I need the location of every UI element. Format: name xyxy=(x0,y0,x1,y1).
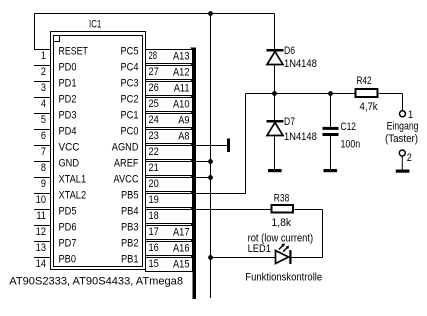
svg-text:A10: A10 xyxy=(173,98,190,110)
diode D7 (1N4148, cathode up) xyxy=(267,120,284,136)
label C12 xyxy=(341,121,357,133)
IC1 pin 16 (PB2) label frame xyxy=(146,240,197,256)
label rot (low current) xyxy=(248,233,314,245)
svg-text:20: 20 xyxy=(149,178,159,190)
svg-text:PD1: PD1 xyxy=(59,77,77,89)
pin number 27 xyxy=(149,66,159,78)
label AT90S2333, AT90S4433, ATmega8 xyxy=(9,275,183,287)
ground (below terminal 2) xyxy=(396,170,410,173)
svg-text:AGND: AGND xyxy=(112,141,139,153)
pin name PB5 xyxy=(121,189,139,201)
svg-text:R38: R38 xyxy=(274,193,290,205)
wire: pin 19 PB5 horizontal xyxy=(196,193,246,195)
pin name XTAL2 xyxy=(59,189,87,201)
svg-text:R42: R42 xyxy=(357,75,372,87)
pin name PB0 xyxy=(59,253,77,265)
svg-text:2: 2 xyxy=(41,66,46,78)
terminal pad 2 (Eingang return) xyxy=(399,150,405,156)
wire: R38 right lead xyxy=(295,209,323,211)
svg-text:PD0: PD0 xyxy=(59,61,77,73)
IC1 pin 18 (PB4) label frame xyxy=(146,208,197,224)
svg-text:15: 15 xyxy=(149,258,159,270)
pin name PB1 xyxy=(121,253,139,265)
wire: C12 bottom lead to ground xyxy=(330,136,332,169)
pin number 3 xyxy=(41,82,46,94)
ground (AGND tap bar, rotated) xyxy=(227,139,230,153)
LED LED1 (rot, low current) xyxy=(276,243,292,264)
svg-text:14: 14 xyxy=(36,258,46,270)
pin number 20 xyxy=(149,178,159,190)
pin number 6 xyxy=(41,130,46,142)
svg-text:D6: D6 xyxy=(284,45,295,57)
svg-text:PC2: PC2 xyxy=(121,93,139,105)
IC1 pin 11 (PD5) stub wire xyxy=(34,209,51,211)
IC1 pin 17 (PB3) label frame xyxy=(146,224,197,240)
pin name RESET xyxy=(59,45,89,57)
svg-text:RESET: RESET xyxy=(59,45,89,57)
wire: input node horizontal (node to R42) xyxy=(246,93,355,95)
svg-text:A15: A15 xyxy=(173,258,190,270)
pin name PC5 xyxy=(121,45,139,57)
svg-text:PC5: PC5 xyxy=(121,45,139,57)
pin name PD1 xyxy=(59,77,77,89)
svg-text:PB1: PB1 xyxy=(121,253,139,265)
pin number 2 xyxy=(41,66,46,78)
svg-text:PB2: PB2 xyxy=(121,237,139,249)
IC1 pin 3 (PD1) stub wire xyxy=(34,81,51,83)
svg-text:24: 24 xyxy=(149,114,159,126)
wire: R42 to terminal 1 xyxy=(402,94,404,111)
svg-text:17: 17 xyxy=(149,226,159,238)
IC1 pin-1 marker notch xyxy=(54,36,60,42)
wire: pin 18 PB4 to R38 xyxy=(196,209,271,211)
capacitor C12 plates xyxy=(323,127,339,136)
net label A17 xyxy=(173,226,190,238)
svg-text:21: 21 xyxy=(149,162,159,174)
svg-text:PC1: PC1 xyxy=(121,109,139,121)
net label A13 xyxy=(173,50,190,62)
net label A16 xyxy=(173,242,190,254)
svg-text:A9: A9 xyxy=(178,114,189,126)
svg-text:11: 11 xyxy=(36,210,46,222)
svg-text:PB5: PB5 xyxy=(121,189,139,201)
svg-text:5: 5 xyxy=(41,114,46,126)
pin number 16 xyxy=(149,242,159,254)
pin number 10 xyxy=(36,194,46,206)
value 1N4148 (D6) xyxy=(284,58,317,70)
pin name PB3 xyxy=(121,221,139,233)
svg-text:3: 3 xyxy=(41,82,46,94)
op-amp/IC U? : microcontroller IC1 body outer box xyxy=(51,32,146,270)
IC1 pin 28 (PC5) label frame xyxy=(146,48,197,64)
junction: top rail / AREF-AVCC riser xyxy=(208,11,213,16)
value 1N4148 (D7) xyxy=(284,131,317,143)
svg-text:8: 8 xyxy=(41,162,46,174)
pin number 7 xyxy=(41,146,46,158)
wire: long vertical net (AREF/AVCC/LED return) xyxy=(210,14,212,299)
junction: LED anode on vertical net xyxy=(208,255,213,260)
pin number 21 xyxy=(149,162,159,174)
label (Taster) xyxy=(385,133,418,145)
IC1 pin 21 (AREF) label frame xyxy=(146,160,197,176)
svg-text:XTAL2: XTAL2 xyxy=(59,189,87,201)
svg-text:PD6: PD6 xyxy=(59,221,77,233)
IC1 pin 2 (PD0) stub wire xyxy=(34,65,51,67)
wire: LED cathode lead xyxy=(292,257,323,259)
pin name PD7 xyxy=(59,237,77,249)
wire: pin 1 RESET riser to top rail xyxy=(34,14,36,50)
pin number 12 xyxy=(36,226,46,238)
wire: D6 anode down to input node xyxy=(274,65,276,94)
wire: PB5 riser to input node xyxy=(245,94,247,194)
svg-text:AT90S2333, AT90S4433, ATmega8: AT90S2333, AT90S4433, ATmega8 xyxy=(9,275,183,287)
ground (below C12) xyxy=(324,169,338,172)
IC1 pin 1 (RESET) stub wire xyxy=(34,49,51,51)
label D7 xyxy=(284,116,295,128)
svg-text:A8: A8 xyxy=(178,130,189,142)
svg-text:4: 4 xyxy=(41,98,46,110)
pin name GND xyxy=(59,157,80,169)
svg-text:LED1: LED1 xyxy=(248,243,271,255)
pin number 19 xyxy=(149,194,159,206)
svg-text:A16: A16 xyxy=(173,242,190,254)
IC1 pin 8 (GND) stub wire xyxy=(34,161,51,163)
pin number 25 xyxy=(149,98,159,110)
svg-text:26: 26 xyxy=(149,82,159,94)
svg-text:10: 10 xyxy=(36,194,46,206)
svg-text:1N4148: 1N4148 xyxy=(284,58,317,70)
IC1 pin 7 (VCC) stub wire xyxy=(34,145,51,147)
IC1 pin 9 (XTAL1) stub wire xyxy=(34,177,51,179)
IC1 pin 10 (XTAL2) stub wire xyxy=(34,193,51,195)
pin name PC0 xyxy=(121,125,139,137)
net label A11 xyxy=(174,82,190,94)
junction: AVCC on vertical net xyxy=(208,175,213,180)
IC1 pin 25 (PC2) label frame xyxy=(146,96,197,112)
pin number 17 xyxy=(149,226,159,238)
wire: LED anode lead xyxy=(211,257,276,259)
svg-text:PD2: PD2 xyxy=(59,93,77,105)
IC1 pin 6 (PD4) stub wire xyxy=(34,129,51,131)
resistor R38 body xyxy=(272,205,294,213)
pin name PD0 xyxy=(59,61,77,73)
net label A15 xyxy=(173,258,190,270)
svg-text:C12: C12 xyxy=(341,121,357,133)
svg-text:22: 22 xyxy=(149,146,159,158)
svg-text:XTAL1: XTAL1 xyxy=(59,173,87,185)
svg-text:Funktionskontrolle: Funktionskontrolle xyxy=(245,272,322,284)
svg-text:PB4: PB4 xyxy=(121,205,139,217)
svg-text:1,8k: 1,8k xyxy=(272,217,292,229)
svg-text:4,7k: 4,7k xyxy=(360,101,379,113)
diode D6 (1N4148, cathode up) xyxy=(267,49,284,65)
svg-text:VCC: VCC xyxy=(59,141,80,153)
IC1 pin 19 (PB5) label frame xyxy=(146,192,197,208)
svg-text:AVCC: AVCC xyxy=(114,173,139,185)
wire: pin 20 AVCC to vertical net xyxy=(196,177,211,179)
svg-text:PD4: PD4 xyxy=(59,125,77,137)
svg-text:23: 23 xyxy=(149,130,159,142)
svg-text:PD5: PD5 xyxy=(59,205,77,217)
svg-text:PD7: PD7 xyxy=(59,237,77,249)
svg-text:7: 7 xyxy=(41,146,46,158)
label LED1 xyxy=(248,243,271,255)
pin name PC4 xyxy=(121,61,139,73)
pin number 23 xyxy=(149,130,159,142)
pin name PC1 xyxy=(121,109,139,121)
wire: terminal 2 to ground xyxy=(401,156,403,169)
IC1 pin 26 (PC3) label frame xyxy=(146,80,197,96)
svg-text:A17: A17 xyxy=(173,226,190,238)
IC1 pin 27 (PC4) label frame xyxy=(146,64,197,80)
pin name AVCC xyxy=(114,173,139,185)
svg-text:PB3: PB3 xyxy=(121,221,139,233)
pin number 11 xyxy=(36,210,46,222)
wire: VCC top rail xyxy=(35,13,275,15)
svg-text:PC0: PC0 xyxy=(121,125,139,137)
pin name PB2 xyxy=(121,237,139,249)
value 1,8k xyxy=(272,217,292,229)
svg-text:19: 19 xyxy=(149,194,159,206)
resistor R42 body xyxy=(356,89,378,97)
svg-text:AREF: AREF xyxy=(114,157,139,169)
svg-text:9: 9 xyxy=(41,178,46,190)
pin number 4 xyxy=(41,98,46,110)
net label A12 xyxy=(173,66,190,78)
svg-text:PC4: PC4 xyxy=(121,61,139,73)
IC1 pin 20 (AVCC) label frame xyxy=(146,176,197,192)
pin name AGND xyxy=(112,141,139,153)
label R42 xyxy=(357,75,372,87)
IC1 pin 14 (PB0) stub wire xyxy=(34,257,51,259)
IC1 pin 24 (PC1) label frame xyxy=(146,112,197,128)
label Funktionskontrolle xyxy=(245,272,322,284)
svg-text:PB0: PB0 xyxy=(59,253,77,265)
pin name XTAL1 xyxy=(59,173,87,185)
svg-text:1N4148: 1N4148 xyxy=(284,131,317,143)
junction: D6/D7 on input node xyxy=(272,91,277,96)
pin number 9 xyxy=(41,178,46,190)
net label A10 xyxy=(173,98,190,110)
pin number 22 xyxy=(149,146,159,158)
pin name PC2 xyxy=(121,93,139,105)
svg-text:28: 28 xyxy=(149,50,158,62)
svg-text:27: 27 xyxy=(149,66,159,78)
svg-text:12: 12 xyxy=(36,226,46,238)
pin name PD5 xyxy=(59,205,77,217)
IC1 pin 4 (PD2) stub wire xyxy=(34,97,51,99)
svg-text:13: 13 xyxy=(36,242,46,254)
ground (below D7) xyxy=(268,169,282,172)
pin name PD4 xyxy=(59,125,77,137)
svg-text:1: 1 xyxy=(41,50,46,62)
svg-text:A13: A13 xyxy=(173,50,190,62)
pin number 26 xyxy=(149,82,159,94)
wire: pin 22 AGND to ground tap xyxy=(196,145,227,147)
junction: AREF on vertical net xyxy=(208,159,213,164)
svg-text:PD3: PD3 xyxy=(59,109,77,121)
svg-text:IC1: IC1 xyxy=(89,19,101,31)
IC1 body inner box xyxy=(54,36,143,267)
svg-text:25: 25 xyxy=(149,98,159,110)
wire: input node down to D7 cathode xyxy=(274,94,276,121)
IC1 pin 5 (PD3) stub wire xyxy=(34,113,51,115)
wire: D7 anode down to ground xyxy=(274,136,276,169)
wire: R42 right lead xyxy=(379,93,403,95)
svg-text:PC3: PC3 xyxy=(121,77,139,89)
svg-text:D7: D7 xyxy=(284,116,295,128)
pin number 14 xyxy=(36,258,46,270)
pin number 28 xyxy=(149,50,158,62)
pin name PD2 xyxy=(59,93,77,105)
IC1 pin 12 (PD6) stub wire xyxy=(34,225,51,227)
pin name PC3 xyxy=(121,77,139,89)
pin name PD6 xyxy=(59,221,77,233)
wire: D6 cathode to top rail xyxy=(274,14,276,50)
pin number 1 xyxy=(41,50,46,62)
svg-text:2: 2 xyxy=(407,152,412,164)
svg-text:100n: 100n xyxy=(341,139,361,151)
svg-text:Eingang: Eingang xyxy=(387,121,419,133)
pin number 5 xyxy=(41,114,46,126)
svg-text:GND: GND xyxy=(59,157,80,169)
label Eingang xyxy=(387,121,419,133)
svg-text:(Taster): (Taster) xyxy=(385,133,418,145)
label R38 xyxy=(274,193,290,205)
pin name PD3 xyxy=(59,109,77,121)
pin number 24 xyxy=(149,114,159,126)
svg-text:A12: A12 xyxy=(173,66,190,78)
svg-text:16: 16 xyxy=(149,242,159,254)
IC1 pin 23 (PC0) label frame xyxy=(146,128,197,144)
value 100n xyxy=(341,139,361,151)
pin name PB4 xyxy=(121,205,139,217)
terminal pad 1 (Eingang) xyxy=(400,111,406,117)
svg-text:A11: A11 xyxy=(174,82,190,94)
terminal number 1 xyxy=(408,109,413,121)
label D6 xyxy=(284,45,295,57)
pin number 18 xyxy=(149,210,159,222)
value 4,7k xyxy=(360,101,379,113)
svg-text:18: 18 xyxy=(149,210,159,222)
svg-text:6: 6 xyxy=(41,130,46,142)
pin number 8 xyxy=(41,162,46,174)
wire: R38 down to LED xyxy=(322,210,324,258)
net label A9 xyxy=(178,114,189,126)
wire: C12 top lead xyxy=(330,94,332,128)
wire: pin 21 AREF to vertical net xyxy=(196,161,211,163)
pin number 15 xyxy=(149,258,159,270)
pin name VCC xyxy=(59,141,80,153)
IC1 pin 15 (PB1) label frame xyxy=(146,256,197,272)
pin number 13 xyxy=(36,242,46,254)
IC1 reference designator label xyxy=(89,19,101,31)
pin name AREF xyxy=(114,157,139,169)
junction: C12 on input node xyxy=(328,91,333,96)
terminal number 2 xyxy=(407,152,412,164)
svg-text:1: 1 xyxy=(408,109,413,121)
IC1 pin 22 (AGND) label frame xyxy=(146,144,197,160)
bus (thick vertical net bundle) xyxy=(193,48,197,300)
IC1 pin 13 (PD7) stub wire xyxy=(34,241,51,243)
net label A8 xyxy=(178,130,189,142)
